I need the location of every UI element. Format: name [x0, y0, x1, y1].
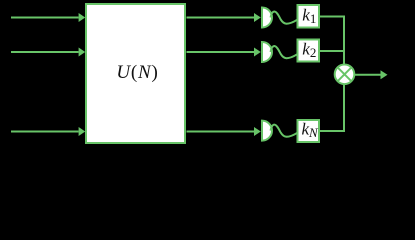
interferometer box U(N)	[86, 4, 185, 143]
svg-text:U(N): U(N)	[116, 62, 158, 83]
wire output 3	[187, 127, 261, 136]
box k1	[298, 5, 320, 28]
detector D3	[262, 121, 272, 141]
wire kN to bus	[319, 130, 345, 132]
wire k1 to bus	[319, 16, 345, 18]
box kN	[298, 120, 320, 142]
classical squiggle wire 1	[271, 12, 298, 24]
wire output arrow	[355, 70, 388, 79]
detector D1	[262, 8, 272, 28]
wire k2 to bus	[319, 50, 345, 52]
bus vertical top segment	[343, 16, 345, 65]
wire input 3	[11, 127, 85, 136]
wire input 2	[11, 48, 85, 57]
wire output 1	[187, 13, 261, 22]
classical squiggle wire 3	[271, 125, 298, 137]
detector D2	[262, 42, 272, 62]
box k2	[298, 40, 320, 62]
bus vertical bottom segment	[343, 85, 345, 132]
multiplier node	[335, 65, 355, 85]
wire input 1	[11, 13, 85, 22]
wire output 2	[187, 48, 261, 57]
classical squiggle wire 2	[271, 46, 298, 58]
